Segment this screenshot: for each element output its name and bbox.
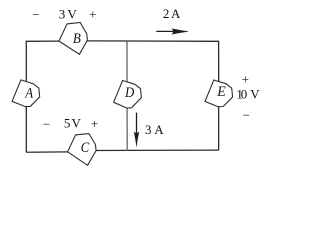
element A [12, 80, 40, 107]
wire right upper [218, 41, 220, 82]
svg-text:−: − [43, 116, 50, 131]
wire bottom left segment [26, 151, 68, 153]
svg-text:C: C [81, 140, 90, 156]
wire top right segment [87, 40, 218, 42]
wire left upper [25, 41, 27, 82]
element E [205, 80, 233, 107]
svg-text:+: + [91, 116, 98, 131]
svg-text:5: 5 [64, 116, 71, 131]
svg-text:−: − [243, 108, 250, 123]
svg-text:3: 3 [59, 6, 65, 21]
svg-text:0: 0 [241, 87, 248, 102]
wire bottom right segment [96, 149, 219, 151]
svg-text:B: B [73, 31, 81, 47]
element C [68, 134, 97, 166]
wire left lower [25, 107, 27, 153]
svg-text:3: 3 [145, 122, 152, 137]
wire middle lower (gray) [126, 108, 128, 151]
arrow 3A [134, 113, 140, 148]
svg-text:A: A [24, 85, 33, 101]
wire right lower [218, 107, 220, 151]
element B [59, 23, 88, 55]
svg-text:V: V [72, 116, 82, 131]
svg-text:E: E [216, 84, 226, 100]
svg-text:A: A [154, 122, 164, 137]
wire top left segment [26, 40, 59, 42]
svg-text:+: + [89, 7, 96, 22]
svg-text:V: V [250, 87, 260, 102]
arrow 2A [156, 28, 189, 34]
element D [114, 81, 142, 109]
svg-text:+: + [242, 71, 249, 86]
svg-text:2: 2 [163, 6, 170, 21]
svg-text:D: D [124, 85, 135, 101]
wire middle upper (gray) [126, 41, 128, 82]
svg-text:−: − [32, 7, 39, 22]
svg-text:A: A [171, 6, 181, 21]
svg-text:V: V [67, 6, 77, 21]
